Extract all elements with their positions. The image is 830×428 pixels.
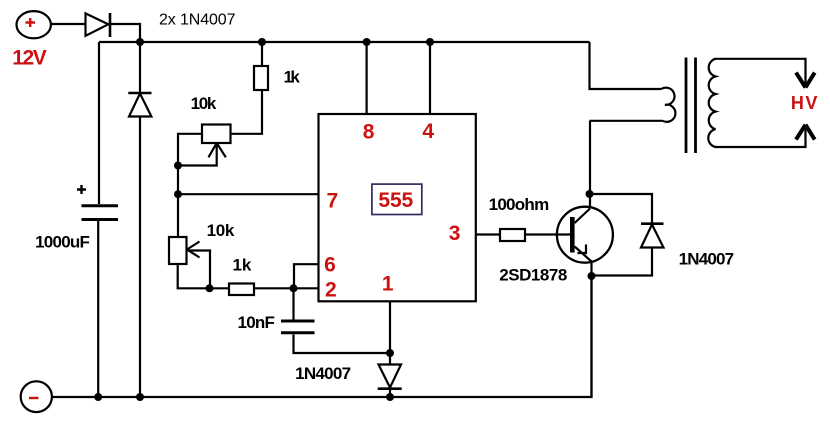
svg-text:HV: HV bbox=[791, 93, 819, 113]
svg-text:1k: 1k bbox=[284, 67, 301, 86]
svg-text:1: 1 bbox=[382, 273, 394, 296]
svg-text:7: 7 bbox=[326, 190, 338, 213]
svg-text:2: 2 bbox=[325, 279, 337, 302]
svg-text:8: 8 bbox=[363, 121, 375, 144]
svg-text:2x 1N4007: 2x 1N4007 bbox=[159, 12, 236, 29]
svg-text:10nF: 10nF bbox=[238, 313, 275, 332]
svg-text:12V: 12V bbox=[12, 47, 47, 70]
svg-text:1000uF: 1000uF bbox=[35, 232, 90, 251]
svg-text:1N4007: 1N4007 bbox=[295, 364, 351, 383]
svg-text:10k: 10k bbox=[191, 94, 217, 113]
svg-text:3: 3 bbox=[449, 222, 461, 245]
svg-text:2SD1878: 2SD1878 bbox=[499, 265, 567, 284]
svg-text:1N4007: 1N4007 bbox=[679, 249, 735, 268]
svg-text:100ohm: 100ohm bbox=[489, 195, 550, 214]
svg-text:1k: 1k bbox=[233, 256, 252, 275]
svg-text:10k: 10k bbox=[207, 221, 235, 240]
svg-text:6: 6 bbox=[324, 254, 336, 277]
svg-text:4: 4 bbox=[422, 120, 434, 143]
svg-text:555: 555 bbox=[378, 189, 413, 212]
